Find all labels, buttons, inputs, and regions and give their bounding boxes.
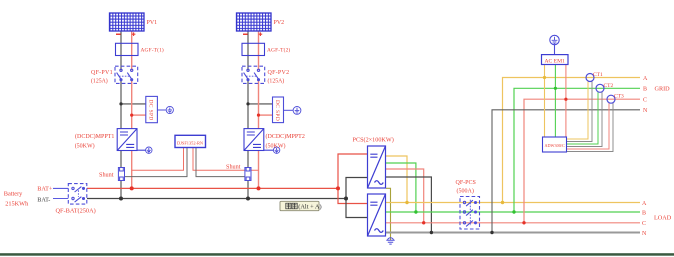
svg-text:CT2: CT2 [604, 83, 614, 89]
svg-text:BAT-: BAT- [37, 197, 50, 204]
svg-text:Battery: Battery [4, 191, 23, 198]
svg-text:(500A): (500A) [457, 187, 474, 194]
svg-text:(125A): (125A) [91, 78, 108, 85]
svg-text:(DCDC)MPPT1: (DCDC)MPPT1 [75, 133, 114, 140]
svg-text:QF-PV2: QF-PV2 [268, 70, 290, 76]
svg-text:GRID: GRID [655, 86, 671, 93]
svg-text:A: A [642, 201, 647, 207]
svg-text:(DCDC)MPPT2: (DCDC)MPPT2 [266, 133, 305, 140]
svg-text:BAT+: BAT+ [37, 186, 53, 193]
svg-text:CT3: CT3 [614, 94, 624, 100]
svg-text:DJSF1352-RN: DJSF1352-RN [177, 140, 204, 145]
svg-text:Shunt: Shunt [99, 172, 114, 179]
svg-text:DC SPD: DC SPD [274, 100, 280, 121]
svg-text:A: A [643, 76, 648, 82]
svg-text:ADW300/C: ADW300/C [545, 143, 565, 148]
svg-text:N: N [642, 231, 647, 237]
svg-text:AC EM1: AC EM1 [545, 58, 566, 64]
svg-text:DC SPD: DC SPD [148, 100, 154, 121]
svg-text:(50KW): (50KW) [75, 143, 95, 150]
svg-text:LOAD: LOAD [654, 215, 672, 222]
svg-text:B: B [643, 87, 647, 93]
svg-text:Shunt: Shunt [226, 164, 241, 171]
svg-text:N: N [643, 108, 648, 114]
svg-text:AGF-T(1): AGF-T(1) [141, 47, 164, 54]
svg-text:PCS(2×100KW): PCS(2×100KW) [353, 137, 394, 144]
svg-text:(Alt + A): (Alt + A) [298, 204, 321, 211]
svg-text:PV2: PV2 [274, 20, 285, 26]
svg-text:C: C [643, 98, 647, 104]
svg-text:QF-PV1: QF-PV1 [91, 70, 113, 76]
svg-text:(50KW): (50KW) [266, 143, 286, 150]
svg-text:QF-BAT(250A): QF-BAT(250A) [56, 208, 96, 215]
svg-text:C: C [642, 221, 646, 227]
svg-text:QF-PCS: QF-PCS [456, 180, 476, 186]
svg-text:CT1: CT1 [593, 72, 603, 78]
svg-text:B: B [642, 210, 646, 216]
svg-text:AGF-T(2): AGF-T(2) [267, 47, 290, 54]
svg-text:(125A): (125A) [268, 78, 285, 85]
svg-text:PV1: PV1 [147, 20, 158, 26]
svg-text:215KWh: 215KWh [5, 200, 29, 207]
